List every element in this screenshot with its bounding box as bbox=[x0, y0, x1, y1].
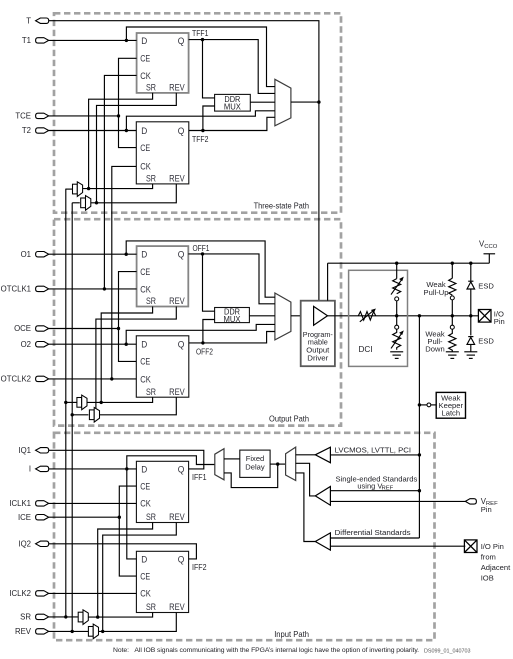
svg-text:SR: SR bbox=[146, 296, 156, 306]
svg-text:CK: CK bbox=[140, 375, 151, 385]
inverter mux I3 (SR output path) bbox=[77, 395, 87, 410]
svg-text:SR: SR bbox=[146, 387, 156, 397]
svg-text:D: D bbox=[141, 36, 147, 46]
port IQ2 (left-pointing) bbox=[18, 540, 48, 549]
svg-text:REV: REV bbox=[169, 602, 185, 612]
wire DDR MUX U1 output to mux M1 input 3 bbox=[250, 101, 275, 103]
wire SR rail vertical bbox=[65, 189, 67, 617]
svg-text:Differential Standards: Differential Standards bbox=[335, 528, 411, 537]
wire OFF2.Q branch to DDR MUX U2 input 2 bbox=[203, 320, 215, 343]
wire REV rail tap to inverter I4 bbox=[72, 414, 88, 416]
wire TFF1.REV to REV invert line bbox=[97, 93, 177, 203]
I/O pin pad symbol bbox=[478, 310, 491, 323]
svg-text:Q: Q bbox=[178, 126, 185, 136]
wire mux M3 output distribution bbox=[127, 456, 215, 559]
svg-text:using V: using V bbox=[357, 481, 383, 490]
node TFF1.Q junction bbox=[201, 38, 204, 41]
wire T2 bypass to mux M1 input 4 bbox=[126, 111, 275, 131]
svg-text:Delay: Delay bbox=[245, 463, 265, 472]
inverter mux I1 (SR three-state) bbox=[73, 182, 83, 197]
node TFF1.SR junction bbox=[87, 187, 90, 190]
flip-flop OFF2 bbox=[136, 336, 189, 397]
svg-text:Q: Q bbox=[178, 340, 185, 350]
svg-text:LVCMOS, LVTTL, PCI: LVCMOS, LVTTL, PCI bbox=[335, 446, 411, 455]
inverter mux I2 (REV three-state) bbox=[81, 196, 91, 211]
wire IFF1.REV to REV invert line bbox=[103, 523, 177, 632]
wire SR rail tap to inverter I3 bbox=[66, 401, 77, 403]
DDR MUX U2 (output path) bbox=[215, 307, 250, 324]
port SR bbox=[20, 613, 49, 622]
svg-text:T1: T1 bbox=[22, 36, 31, 45]
svg-text:TFF2: TFF2 bbox=[192, 135, 209, 144]
dashed box Input Path bbox=[54, 433, 435, 640]
port T2 bbox=[22, 126, 49, 135]
node IFF1.REV junction bbox=[101, 630, 104, 633]
wire pad to input path bbox=[418, 316, 420, 538]
svg-text:from: from bbox=[481, 553, 496, 562]
wire pad to buffer B3 bbox=[330, 537, 419, 539]
node delay bypass junction bbox=[276, 462, 279, 465]
svg-text:CK: CK bbox=[140, 71, 151, 81]
wire buffer B2 output to mux M4 input 2 bbox=[296, 463, 316, 496]
node OFF1.REV junction bbox=[94, 413, 97, 416]
svg-text:SR: SR bbox=[20, 613, 31, 622]
wire OFF1.Q to mux M2 input 2 bbox=[188, 254, 275, 304]
wire REV rail tap to inverter I2 bbox=[72, 202, 80, 204]
svg-text:OCE: OCE bbox=[14, 324, 31, 333]
svg-text:D: D bbox=[141, 340, 147, 350]
port OTCLK2 bbox=[1, 375, 49, 384]
wire ICE to CE rail bbox=[49, 516, 120, 518]
wire buffer B3 output to mux M4 input 3 bbox=[296, 473, 316, 542]
node OTCLK1 junction bbox=[103, 287, 106, 290]
mux M2 (output 5:1 mux) bbox=[275, 293, 291, 340]
svg-text:REV: REV bbox=[169, 387, 185, 397]
wire inverter I3 output to OFF2.SR bbox=[87, 397, 153, 402]
port ICLK1 bbox=[9, 499, 48, 508]
node pad line junctions bbox=[395, 314, 398, 317]
svg-text:REV: REV bbox=[169, 512, 185, 522]
svg-text:TCE: TCE bbox=[15, 112, 31, 121]
svg-text:SR: SR bbox=[146, 83, 156, 93]
svg-text:ICLK1: ICLK1 bbox=[9, 499, 31, 508]
DCI box bbox=[349, 270, 408, 366]
node pad buffer B1 tap bbox=[418, 453, 421, 456]
svg-text:Note: All IOB signals commun: Note: All IOB signals communicating with… bbox=[113, 647, 419, 654]
node O1 junction bbox=[125, 253, 128, 256]
svg-text:IQ2: IQ2 bbox=[18, 540, 31, 549]
svg-text:CE: CE bbox=[140, 357, 150, 367]
wire TFF2.Q to mux M1 input 5 bbox=[189, 117, 275, 130]
node REV rail tap output path bbox=[71, 413, 74, 416]
wire TCE rail to TFF1.CE and TFF2.CE bbox=[119, 58, 137, 147]
wire DDR MUX U2 output to mux M2 input 3 bbox=[249, 315, 275, 317]
mux M1 (three-state 5:1 mux) bbox=[275, 79, 291, 126]
resistor R4 weak pull-up bbox=[449, 263, 456, 316]
wire VREF pin to buffer B2 bbox=[330, 500, 465, 502]
mux M4 (input standard select) bbox=[286, 447, 296, 480]
svg-text:Input Path: Input Path bbox=[274, 630, 309, 639]
port TCE bbox=[15, 112, 48, 121]
wire IFF1.SR to SR invert line bbox=[98, 523, 153, 618]
wire ICLK2 to IFF2.CK bbox=[49, 592, 137, 594]
svg-text:SR: SR bbox=[146, 602, 156, 612]
wire REV port to inverter I6 bbox=[49, 630, 88, 632]
wire pad to buffer B1 bbox=[330, 454, 419, 456]
svg-text:OTCLK1: OTCLK1 bbox=[1, 285, 31, 294]
svg-text:REV: REV bbox=[169, 83, 185, 93]
diode D2 ESD lower bbox=[467, 316, 475, 352]
svg-text:ESD: ESD bbox=[478, 336, 494, 345]
flip-flop TFF1 bbox=[137, 33, 189, 93]
wire T direct to output driver three-state bbox=[49, 21, 319, 310]
wire T1 to TFF1.D bbox=[49, 39, 137, 41]
wire O2 to OFF2.D bbox=[49, 343, 137, 345]
flip-flop IFF1 bbox=[136, 461, 188, 522]
wire ICE rail to IFF1.CE and IFF2.CE bbox=[119, 486, 136, 576]
node mux M1 output junction bbox=[317, 100, 320, 103]
buffer B1 LVCMOS input buffer bbox=[315, 447, 330, 463]
svg-text:Latch: Latch bbox=[442, 409, 461, 418]
node VCCO rail taps bbox=[395, 262, 398, 265]
buffer B2 VREF input buffer bbox=[315, 487, 330, 506]
svg-text:REV: REV bbox=[169, 296, 185, 306]
wire T2 to TFF2.D bbox=[49, 130, 137, 132]
port OTCLK1 bbox=[1, 285, 49, 294]
node O2 junction bbox=[125, 343, 128, 346]
svg-text:OFF1: OFF1 bbox=[193, 244, 210, 253]
svg-text:ICE: ICE bbox=[18, 513, 31, 522]
wire keeper tap bbox=[418, 403, 437, 407]
port OCE bbox=[14, 324, 49, 333]
I/O pin from adjacent IOB pad symbol bbox=[464, 540, 477, 553]
inverter mux I5 (SR input path) bbox=[78, 610, 88, 625]
node IFF1.SR junction bbox=[96, 615, 99, 618]
port REV bbox=[15, 627, 49, 636]
wire driver output to I/O pad line bbox=[328, 315, 479, 317]
wire buffer B1 output to mux M4 input 1 bbox=[296, 454, 316, 456]
port IQ1 (left-pointing) bbox=[18, 446, 48, 455]
dashed box Output Path bbox=[54, 219, 341, 425]
dashed box Three-state Path bbox=[54, 13, 341, 212]
port T (output to fabric, left-pointing) bbox=[26, 16, 48, 25]
svg-text:D: D bbox=[141, 250, 147, 260]
svg-text:O1: O1 bbox=[21, 250, 31, 259]
port VREF pin bbox=[465, 497, 498, 514]
ground ESD bbox=[464, 352, 477, 359]
node T2 junction bbox=[125, 129, 128, 132]
wire mux M4 output to fixed delay input bbox=[270, 463, 286, 465]
flip-flop IFF2 bbox=[136, 551, 188, 612]
mux M3 (delay select) bbox=[215, 449, 224, 480]
node REV rail junction bbox=[71, 630, 74, 633]
svg-text:D: D bbox=[141, 126, 147, 136]
svg-text:CE: CE bbox=[140, 54, 150, 64]
svg-text:O2: O2 bbox=[21, 340, 31, 349]
wire inverter I6 output to IFF2.REV bbox=[99, 613, 177, 632]
wire O1 to OFF1.D bbox=[49, 253, 137, 255]
wire inverter I2 output to TFF2.REV bbox=[91, 184, 177, 203]
svg-text:ICLK2: ICLK2 bbox=[9, 589, 31, 598]
node TCE junction bbox=[117, 114, 120, 117]
port I (left-pointing) bbox=[29, 465, 49, 474]
svg-text:D: D bbox=[141, 554, 147, 564]
resistor R1 series DCI (programmable, on pad line) bbox=[358, 309, 376, 322]
port O1 bbox=[21, 250, 49, 259]
wire TFF2.Q branch to DDR MUX U1 input 2 bbox=[203, 106, 215, 131]
wire OCE to CE rail bbox=[49, 328, 119, 330]
port ICE bbox=[18, 513, 49, 522]
node OFF1.Q junction bbox=[201, 252, 204, 255]
wire ICLK1 to IFF1.CK bbox=[49, 502, 137, 504]
svg-text:T: T bbox=[26, 16, 31, 25]
wire OTCLK1 rail to TFF1.CK bbox=[104, 75, 136, 289]
node TFF1.REV junction bbox=[95, 201, 98, 204]
node SR rail junction bbox=[64, 615, 67, 618]
resistor R2 DCI pull-up (programmable) bbox=[391, 263, 404, 316]
wire adjacent pad to buffer B3 bbox=[330, 545, 465, 547]
node I distribution junction bbox=[125, 467, 128, 470]
svg-text:Driver: Driver bbox=[307, 353, 329, 362]
svg-text:REV: REV bbox=[169, 174, 185, 184]
svg-text:I: I bbox=[29, 465, 31, 474]
svg-text:Pin: Pin bbox=[481, 505, 492, 514]
wire VCCO rail bbox=[328, 262, 490, 264]
wire pad to buffer B2 bbox=[330, 490, 419, 492]
fixed delay box bbox=[240, 450, 270, 477]
node OTCLK2 junction bbox=[110, 377, 113, 380]
svg-text:Q: Q bbox=[178, 554, 185, 564]
DDR MUX U1 (three-state path) bbox=[215, 94, 251, 111]
node pad buffer B2 tap bbox=[418, 489, 421, 492]
wire I node to IFF1.D bbox=[49, 468, 137, 470]
wire O1 bypass to mux M2 input 1 bbox=[126, 241, 275, 297]
svg-text:I/O Pin: I/O Pin bbox=[481, 542, 504, 551]
wire VCCO drop to driver bbox=[327, 263, 329, 301]
svg-text:Down: Down bbox=[425, 345, 444, 354]
wire OFF2.Q to mux M2 input 5 bbox=[189, 332, 275, 343]
svg-text:DS099_01_040703: DS099_01_040703 bbox=[424, 649, 470, 655]
wire T1 bypass to mux M1 input 1 bbox=[126, 27, 275, 87]
svg-text:IOB: IOB bbox=[481, 574, 494, 583]
wire REV rail vertical bbox=[71, 203, 73, 632]
wire fixed delay output to mux M3 input 1 bbox=[224, 458, 240, 460]
svg-text:CE: CE bbox=[140, 267, 150, 277]
svg-text:CK: CK bbox=[140, 162, 151, 172]
svg-text:DCI: DCI bbox=[359, 345, 373, 354]
svg-text:CE: CE bbox=[140, 143, 150, 153]
svg-text:IFF1: IFF1 bbox=[192, 473, 207, 482]
flip-flop OFF1 bbox=[137, 246, 189, 306]
svg-text:CE: CE bbox=[140, 481, 150, 491]
svg-text:MUX: MUX bbox=[224, 103, 241, 112]
resistor R5 weak pull-down bbox=[449, 316, 456, 352]
port ICLK2 bbox=[9, 589, 48, 598]
node T1 junction bbox=[125, 39, 128, 42]
wire TFF1.SR to SR invert line bbox=[89, 93, 153, 189]
wire inverter I4 output to OFF2.REV bbox=[100, 397, 177, 415]
wire mux M2 output to driver input bbox=[291, 315, 314, 317]
wire IQ2 from IFF2.Q bbox=[49, 544, 197, 559]
inverter mux I4 (REV output path) bbox=[89, 408, 99, 423]
wire TFF1.Q to mux M1 input 2 bbox=[189, 40, 275, 94]
node TFF2.Q junction bbox=[201, 129, 204, 132]
buffer B3 differential input buffer bbox=[315, 533, 330, 550]
wire inverter I5 output to IFF2.SR bbox=[88, 613, 152, 618]
svg-text:Output Path: Output Path bbox=[269, 414, 309, 423]
ground DCI bbox=[390, 352, 403, 359]
svg-text:D: D bbox=[141, 464, 147, 474]
wire SR port to inverter I5 bbox=[49, 616, 78, 618]
svg-text:Adjacent: Adjacent bbox=[481, 563, 511, 572]
power VCCO symbol bbox=[479, 240, 498, 264]
wire OTCLK1 to OFF1.CK bbox=[49, 288, 137, 290]
svg-text:CCO: CCO bbox=[484, 244, 498, 250]
flip-flop TFF2 bbox=[136, 122, 189, 184]
node OCE junction bbox=[117, 327, 120, 330]
svg-text:Q: Q bbox=[178, 36, 185, 46]
node OFF1.SR junction bbox=[100, 401, 103, 404]
inverter mux I6 (REV input path) bbox=[88, 624, 98, 639]
svg-text:MUX: MUX bbox=[224, 315, 241, 324]
svg-text:CE: CE bbox=[140, 571, 150, 581]
op-amp U3 programmable output driver box bbox=[301, 301, 335, 367]
weak keeper latch box bbox=[436, 392, 465, 418]
svg-text:Three-state Path: Three-state Path bbox=[254, 202, 310, 211]
wire OFF1.SR to SR invert line bbox=[101, 307, 152, 403]
svg-text:SR: SR bbox=[146, 512, 156, 522]
wire OTCLK2 rail to TFF2.CK bbox=[112, 166, 137, 379]
svg-text:SR: SR bbox=[146, 174, 156, 184]
wire OFF1.Q branch to DDR MUX U2 input 1 bbox=[203, 254, 215, 311]
svg-text:Pin: Pin bbox=[494, 317, 505, 326]
wire inverter I1 output to TFF2.SR bbox=[83, 184, 153, 189]
svg-text:TFF1: TFF1 bbox=[192, 29, 209, 38]
svg-text:IQ1: IQ1 bbox=[18, 446, 31, 455]
wire TFF1.Q branch to DDR MUX U1 input 1 bbox=[203, 40, 215, 98]
wire IQ1 from IFF1.Q bbox=[49, 450, 204, 469]
svg-text:IFF2: IFF2 bbox=[192, 563, 207, 572]
svg-text:REV: REV bbox=[15, 627, 32, 636]
svg-text:OTCLK2: OTCLK2 bbox=[1, 375, 31, 384]
wire OTCLK2 to OFF2.CK bbox=[49, 378, 137, 380]
wire OCE rail to OFF1.CE and OFF2.CE bbox=[119, 272, 137, 362]
svg-text:OFF2: OFF2 bbox=[196, 348, 213, 357]
node ICE junction bbox=[118, 516, 121, 519]
resistor R3 DCI pull-down (programmable) bbox=[391, 316, 404, 350]
svg-text:ESD: ESD bbox=[478, 282, 494, 291]
svg-text:CK: CK bbox=[140, 284, 151, 294]
wire mux M1 output to T vertical bbox=[291, 101, 319, 103]
ground weak pull-down bbox=[446, 352, 459, 359]
node SR rail tap output path bbox=[64, 401, 67, 404]
svg-text:Q: Q bbox=[178, 464, 185, 474]
wire O2 bypass to mux M2 input 4 bbox=[126, 324, 275, 344]
svg-text:Pull-Up: Pull-Up bbox=[424, 288, 449, 297]
port T1 bbox=[22, 36, 49, 45]
diode D1 ESD upper bbox=[467, 263, 475, 316]
wire delay bypass to mux M3 input 2 bbox=[224, 464, 278, 488]
svg-text:T2: T2 bbox=[22, 126, 31, 135]
port O2 bbox=[21, 340, 49, 349]
node OFF2.Q junction bbox=[201, 341, 204, 344]
svg-text:Q: Q bbox=[178, 250, 185, 260]
wire OFF1.REV to REV invert line bbox=[96, 307, 176, 415]
svg-text:CK: CK bbox=[140, 589, 151, 599]
wire SR rail tap to inverter I1 bbox=[66, 188, 72, 190]
svg-text:CK: CK bbox=[140, 499, 151, 509]
wire TCE to CE rail bbox=[49, 115, 119, 117]
